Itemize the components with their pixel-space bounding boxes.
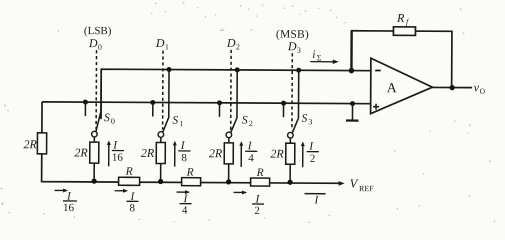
node bit2 on VREF rail [226,179,231,184]
svg-text:2: 2 [249,119,253,128]
resistor 2R bit0 [74,137,99,181]
label VREF with arrow [339,176,375,193]
resistor R3 (bottom rail) [251,167,270,186]
resistor 2R terminator [23,133,46,154]
svg-text:S: S [172,115,178,127]
wire dashed control D3 [291,53,293,130]
svg-text:(LSB): (LSB) [84,25,112,37]
wire feedback loop [350,31,452,88]
resistor 2R bit1 [141,137,166,181]
svg-text:1: 1 [179,119,183,128]
svg-text:R: R [125,166,133,178]
switch S0 [92,112,115,137]
node ground contact S1 [150,100,155,117]
svg-text:2R: 2R [209,146,223,160]
wire summing contact S0 [100,69,102,117]
svg-text:8: 8 [129,202,135,214]
op-amp U1 [371,58,433,114]
svg-text:1: 1 [165,43,169,52]
svg-text:I: I [308,141,314,153]
wire output [432,86,472,88]
svg-text:D: D [287,39,297,53]
node bit3 on VREF rail [287,180,292,185]
svg-text:I: I [180,140,186,152]
label current I/8 bottom [114,189,138,215]
resistor R2 (bottom rail) [182,167,201,186]
svg-text:I: I [313,194,319,206]
svg-text:D: D [88,36,98,50]
node bit1 on VREF rail [158,179,163,184]
label current I/4 branch arrow [239,140,257,167]
wire dashed control D0 [95,50,97,129]
label current I bottom [304,194,325,207]
label i sigma with arrow [310,49,339,64]
svg-text:4: 4 [248,152,254,164]
svg-text:8: 8 [181,152,187,164]
svg-text:16: 16 [63,202,75,214]
svg-text:2R: 2R [270,147,284,161]
label current I/16 branch arrow [107,140,124,167]
svg-text:2R: 2R [141,146,155,160]
svg-text:S: S [104,112,110,124]
node summing contact S2 [234,67,239,118]
svg-text:2R: 2R [74,146,88,160]
svg-text:3: 3 [308,117,312,126]
node summing contact S3 [296,68,301,119]
ground [346,104,359,121]
node ground junction on + rail [350,101,355,106]
svg-text:S: S [301,113,307,125]
svg-text:f: f [406,17,410,26]
node ground contact S2 [217,100,222,117]
switch S2 [226,114,253,137]
wire dashed control D2 [230,50,232,130]
label D1 [155,36,169,52]
node summing junction at feedback [349,68,355,74]
switch S3 [288,113,313,138]
node output junction [450,85,455,90]
svg-text:0: 0 [111,117,115,126]
label current I/4 bottom [176,190,191,217]
svg-text:D: D [226,36,236,50]
svg-text:i: i [312,49,315,61]
svg-text:2: 2 [310,153,316,165]
label current I/16 bottom [54,188,77,214]
svg-text:I: I [112,140,118,152]
label D0 [84,25,112,52]
wire ground rail [42,102,371,104]
label current I/8 branch arrow [173,140,191,167]
label current I/2 bottom [233,190,264,217]
label D2 [226,36,240,52]
svg-text:R: R [396,11,405,25]
svg-text:S: S [242,114,248,126]
wire dashed control D1 [162,51,164,130]
svg-text:16: 16 [112,152,124,164]
svg-text:(MSB): (MSB) [276,29,309,41]
svg-text:O: O [480,87,486,96]
svg-text:2R: 2R [23,137,37,151]
svg-text:2: 2 [254,205,260,217]
label D3 [276,29,309,55]
svg-text:0: 0 [98,43,102,52]
wire bottom VREF rail [42,102,343,183]
node ground contact S0 [83,100,88,117]
svg-text:R: R [256,167,264,179]
svg-text:D: D [155,36,165,50]
switch S1 [158,114,183,137]
resistor 2R bit3 [270,138,295,182]
label vO [474,80,486,95]
node ground contact S3 [281,101,286,118]
wire summing rail [101,69,371,121]
label current I/2 branch arrow [301,141,319,168]
node bit0 on VREF rail [91,179,96,184]
svg-text:REF: REF [359,184,374,193]
svg-text:4: 4 [182,205,188,217]
node summing contact S1 [166,67,171,118]
svg-text:3: 3 [297,46,301,55]
svg-text:R: R [186,167,194,179]
resistor R1 (bottom rail) [119,166,140,186]
resistor Rf [393,11,415,36]
resistor 2R bit2 [209,138,234,182]
svg-text:A: A [387,81,398,96]
svg-text:V: V [350,177,359,191]
svg-text:I: I [247,140,253,152]
svg-text:2: 2 [236,42,240,51]
